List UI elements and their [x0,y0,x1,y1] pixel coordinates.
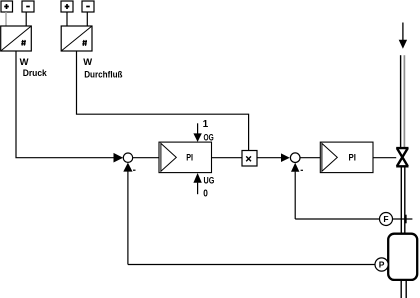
svg-text:PI: PI [186,152,193,163]
svg-text:P: P [379,260,385,270]
svg-text:Durchfluß: Durchfluß [84,68,123,79]
svg-text:0: 0 [203,189,208,200]
svg-text:OG: OG [204,131,214,142]
svg-text:PI: PI [349,152,356,163]
svg-text:UG: UG [204,175,215,186]
svg-text:W: W [83,56,92,67]
svg-text:F: F [383,214,388,224]
svg-text:Druck: Druck [23,67,48,78]
svg-text:W: W [20,56,29,67]
svg-text:1: 1 [203,119,209,130]
